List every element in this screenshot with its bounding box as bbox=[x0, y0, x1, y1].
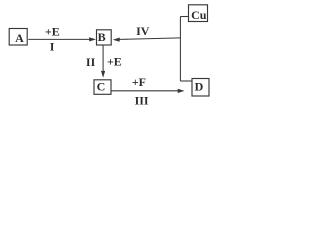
svg-text:Cu: Cu bbox=[191, 8, 207, 22]
svg-text:D: D bbox=[195, 80, 204, 94]
svg-text:+E: +E bbox=[107, 55, 122, 69]
svg-text:C: C bbox=[97, 80, 106, 94]
svg-text:+E: +E bbox=[45, 24, 60, 38]
svg-text:III: III bbox=[135, 94, 149, 108]
svg-text:IV: IV bbox=[136, 24, 150, 38]
svg-text:+F: +F bbox=[132, 75, 146, 89]
svg-text:I: I bbox=[50, 40, 55, 54]
svg-text:B: B bbox=[98, 30, 106, 44]
svg-text:A: A bbox=[15, 31, 24, 45]
svg-text:II: II bbox=[86, 55, 96, 69]
